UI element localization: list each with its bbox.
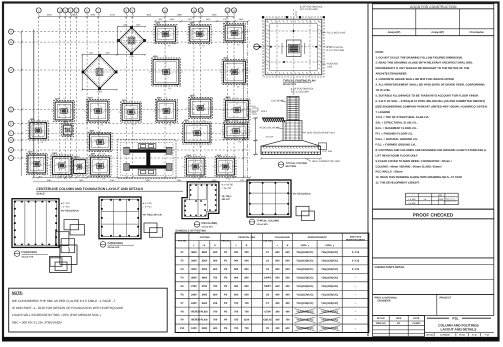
core top landing	[138, 144, 156, 176]
footing F6 at grid (12)	[221, 120, 252, 144]
svg-text:DISCREPANCY IF ANY SHOULD BE B: DISCREPANCY IF ANY SHOULD BE BROUGHT TO …	[376, 67, 470, 70]
svg-text:SIDE FACE: SIDE FACE	[350, 235, 362, 238]
svg-text:11. THE DEVELOPMENT LENGHT: 11. THE DEVELOPMENT LENGHT	[376, 182, 420, 185]
svg-text:600: 600	[286, 327, 291, 330]
svg-text:G: G	[10, 139, 12, 142]
svg-text:600: 600	[286, 251, 291, 254]
svg-text:Y8–TIE@150C/C: Y8–TIE@150C/C	[293, 193, 312, 196]
svg-text:FOOTING: FOOTING	[200, 236, 210, 239]
footing F4 at grid (2)	[186, 22, 214, 48]
svg-text:3600: 3600	[202, 251, 208, 254]
svg-text:500: 500	[286, 277, 291, 280]
svg-text:Analyst(P): Analyst(P)	[388, 31, 401, 34]
left dimension of section	[253, 117, 258, 156]
svg-text:C5/P7: C5/P7	[264, 285, 272, 288]
svg-text:SH NO: SH NO	[459, 334, 466, 337]
kicker details near P1	[64, 220, 85, 235]
svg-text:(SEE ENGINEERING COMPANY PARKV: (SEE ENGINEERING COMPANY PARKVAT LIMITED…	[376, 105, 488, 108]
plan right boundary dash-dot	[247, 21, 249, 178]
svg-text:LAYOUT AND DETAILS: LAYOUT AND DETAILS	[441, 327, 478, 331]
titleblock scale table	[373, 316, 425, 337]
svg-text:PEDESTAL SIZE: PEDESTAL SIZE	[238, 236, 255, 239]
svg-text:700: 700	[213, 310, 218, 313]
svg-text:A: A	[10, 31, 12, 34]
svg-text:Y16@125(C/C): Y16@125(C/C)	[296, 260, 313, 263]
svg-text:Y8–TIE@150C/C: Y8–TIE@150C/C	[61, 209, 80, 212]
svg-text:900: 900	[234, 260, 239, 263]
svg-text:VERL. x: VERL. x	[301, 244, 310, 247]
svg-text:P–45: P–45	[485, 334, 489, 337]
svg-text:400: 400	[286, 310, 291, 313]
svg-text:REINFORCEMENT: REINFORCEMENT	[308, 236, 328, 239]
lift core shear walls	[117, 140, 176, 179]
svg-text:SCALE: SCALE	[36, 193, 45, 196]
svg-text:2800: 2800	[202, 277, 208, 280]
svg-text:6. S.B.C OF SOIL – 375/SQ.M: 6. S.B.C OF SOIL – 375/SQ.M AT 2000L BEL…	[376, 100, 486, 103]
typical column detail	[247, 180, 291, 217]
svg-text:3000: 3000	[202, 268, 208, 271]
svg-text:SECTION: SECTION	[286, 165, 297, 168]
column detail P2	[99, 197, 141, 239]
footing F1 at grid (19)	[70, 155, 90, 179]
svg-text:Y12@150(C/C): Y12@150(C/C)	[296, 293, 313, 296]
svg-text:800: 800	[245, 268, 250, 271]
svg-text:TYPICAL COLUMN: TYPICAL COLUMN	[257, 220, 280, 223]
svg-text:SIZE: SIZE	[396, 317, 402, 320]
svg-text:DWG NO: DWG NO	[376, 322, 386, 325]
svg-text:3740: 3740	[110, 14, 116, 17]
svg-text:Y16@150(C/C): Y16@150(C/C)	[296, 251, 313, 254]
svg-text:900: 900	[245, 251, 250, 254]
core wall top	[128, 149, 168, 152]
svg-text:300: 300	[275, 327, 280, 330]
svg-text:Y8–TIE@ 200 C/C: Y8–TIE@ 200 C/C	[143, 213, 163, 216]
svg-text:500: 500	[275, 268, 280, 271]
svg-text:Y12@125(C/C): Y12@125(C/C)	[296, 302, 313, 305]
svg-text:R.C.C MED LINE: R.C.C MED LINE	[327, 32, 346, 35]
svg-text:Y12@125(C/C): Y12@125(C/C)	[321, 302, 338, 305]
svg-text:F1: F1	[70, 125, 72, 128]
svg-text:2800: 2800	[191, 277, 197, 280]
svg-text:SCHEDULE OF FOOTING: SCHEDULE OF FOOTING	[175, 230, 206, 233]
svg-text:PROOF CHECKED: PROOF CHECKED	[413, 212, 454, 217]
core corner pads	[124, 147, 172, 170]
svg-text:F2: F2	[198, 162, 200, 165]
svg-text:Y16@150(C/C): Y16@150(C/C)	[296, 268, 313, 271]
footing F5 at grid (4)	[149, 55, 183, 90]
svg-text:Y8–TIE@: Y8–TIE@	[222, 195, 233, 198]
svg-text:400: 400	[275, 293, 280, 296]
svg-text:900: 900	[245, 260, 250, 263]
diamond footing small (rotated)	[117, 24, 147, 59]
svg-text:3590: 3590	[212, 14, 218, 17]
svg-text:LINE: LINE	[327, 66, 333, 69]
svg-text:3–Y12: 3–Y12	[352, 260, 360, 263]
svg-text:600: 600	[286, 260, 291, 263]
svg-text:JOB NO: JOB NO	[426, 334, 434, 337]
left dimension line	[21, 32, 23, 176]
svg-text:700: 700	[245, 302, 250, 305]
svg-text:P1(900X900): P1(900X900)	[22, 251, 37, 254]
svg-text:2400: 2400	[202, 293, 208, 296]
svg-text:N.G.L: N.G.L	[261, 110, 268, 113]
svg-text:HORL. y: HORL. y	[325, 244, 334, 247]
svg-text:E: E	[10, 123, 12, 126]
svg-text:F3: F3	[133, 107, 135, 110]
top grid bubbles	[36, 8, 236, 13]
svg-text:FTG NO: FTG NO	[178, 240, 187, 243]
svg-text:400: 400	[286, 285, 291, 288]
svg-text:H: H	[10, 149, 12, 152]
svg-text:Fe 500: Fe 500	[409, 198, 417, 201]
diamond footing large (rotated)	[81, 52, 118, 94]
svg-text:F6: F6	[238, 126, 240, 129]
svg-text:300: 300	[275, 310, 280, 313]
vertical grid lines with bubbles	[39, 13, 234, 177]
svg-text:800: 800	[245, 285, 250, 288]
svg-text:P2(800X800): P2(800X800)	[108, 242, 123, 245]
svg-text:Analyst(P): Analyst(P)	[431, 31, 444, 34]
footing F3 at grid (8)	[118, 99, 144, 126]
svg-text:700: 700	[213, 319, 218, 322]
svg-text:3000: 3000	[191, 268, 197, 271]
svg-text:700: 700	[234, 327, 239, 330]
svg-text:SBC = 300 KN X1.25= 375KN/SQM: SBC = 300 KN X1.25= 375KN/SQM	[12, 320, 62, 324]
svg-text:R–40: R–40	[472, 334, 477, 337]
svg-text:800: 800	[234, 285, 239, 288]
svg-text:CONSULTANTS DETAIL: CONSULTANTS DETAIL	[375, 266, 406, 269]
svg-text:SCALE NTS: SCALE NTS	[283, 83, 296, 86]
svg-text:IS 1893 PART–1– 2016 FOR DES: IS 1893 PART–1– 2016 FOR DESIGN OF FOUND…	[12, 306, 123, 310]
svg-text:2400: 2400	[202, 327, 208, 330]
svg-text:2690: 2690	[90, 14, 96, 17]
svg-text:F10: F10	[180, 327, 185, 330]
svg-text:2400: 2400	[191, 302, 197, 305]
footing F4 at grid (3)	[221, 21, 248, 47]
svg-text:600: 600	[213, 327, 218, 330]
svg-text:F1: F1	[82, 162, 84, 165]
footing F2 at grid (13)	[26, 118, 51, 144]
top dimension line	[39, 16, 234, 18]
footing rebar dots	[262, 152, 318, 153]
svg-text:750: 750	[213, 277, 218, 280]
svg-text:600: 600	[213, 293, 218, 296]
footing F3 at grid (10)	[186, 95, 215, 123]
svg-text:● 4–Y8 TIE: ● 4–Y8 TIE	[222, 184, 234, 187]
proof checked box	[373, 209, 494, 219]
svg-text:700: 700	[245, 310, 250, 313]
svg-text:PED NO: PED NO	[221, 240, 230, 243]
building left edge line	[33, 30, 35, 178]
svg-text:150 C/C: 150 C/C	[222, 198, 231, 201]
svg-text:500: 500	[275, 277, 280, 280]
svg-text:F4: F4	[202, 29, 204, 32]
svg-text:F.G.L = FORMED GROUND: F.G.L = FORMED GROUND LVL.	[376, 143, 417, 146]
svg-text:Y12@150(C/C): Y12@150(C/C)	[296, 285, 313, 288]
section caption	[278, 162, 284, 168]
footing F2 at grid (17)	[24, 151, 50, 179]
svg-text:N.G.L = NATURAL GROUND: N.G.L = NATURAL GROUND LVL.	[376, 138, 419, 141]
svg-text:REINFORCEMENT: REINFORCEMENT	[346, 238, 366, 241]
svg-text:REFER PLAN: REFER PLAN	[191, 310, 207, 313]
column shaft with ties	[287, 97, 299, 121]
svg-text:DATE: DATE	[413, 317, 420, 320]
svg-text:1. DO NOT SCALE THE DRAWING: 1. DO NOT SCALE THE DRAWING FOLLOW FIGUR…	[376, 56, 463, 59]
svg-text:SIDE FACED REINF 50LS: SIDE FACED REINF 50LS	[307, 131, 336, 134]
svg-text:NOTE:: NOTE:	[376, 51, 385, 54]
kicker details near typical column	[296, 206, 314, 220]
svg-text:P3(COLUMN): P3(COLUMN)	[202, 222, 218, 225]
drawing title	[427, 317, 449, 319]
svg-text:GOOD FOR CONSTRUCTION: GOOD FOR CONSTRUCTION	[410, 5, 457, 9]
core wall center	[146, 149, 150, 168]
svg-text:2400: 2400	[202, 302, 208, 305]
svg-text:COLUMN :-40mm / BEAMS :-30mm S: COLUMN :-40mm / BEAMS :-30mm SLABS:-25mm…	[376, 165, 443, 168]
svg-text:○ Y8–TIE: ○ Y8–TIE	[222, 187, 232, 190]
svg-text:8. FOOTINGS AND COLUMNS ARE DE: 8. FOOTINGS AND COLUMNS ARE DESIGNED FOR…	[376, 149, 486, 152]
kicker details near P2	[144, 223, 162, 237]
svg-text:C4/P4: C4/P4	[264, 277, 272, 280]
svg-text:600: 600	[234, 293, 239, 296]
svg-text:R.C.C COLUMN: R.C.C COLUMN	[300, 8, 318, 11]
svg-text:800: 800	[234, 268, 239, 271]
bottom dimension chain	[33, 177, 250, 179]
svg-text:TO IS:1786.: TO IS:1786.	[376, 89, 391, 92]
svg-text:400: 400	[286, 293, 291, 296]
svg-text:1100: 1100	[244, 319, 250, 322]
svg-text:900: 900	[234, 251, 239, 254]
svg-text:F5: F5	[237, 67, 239, 70]
svg-text:700: 700	[234, 310, 239, 313]
svg-text:Y16@125(C/C): Y16@125(C/C)	[321, 260, 338, 263]
titleblock bottom row	[425, 332, 494, 334]
svg-text:PROJECT: PROJECT	[440, 296, 452, 299]
svg-text:SSL = STRUCTURAL SLA: SSL = STRUCTURAL SLAB LVL.	[376, 122, 418, 125]
svg-text:F2: F2	[102, 161, 104, 164]
footing F3 at grid (7)	[84, 97, 112, 127]
svg-text:750: 750	[213, 285, 218, 288]
svg-text:500: 500	[275, 285, 280, 288]
project row	[373, 295, 494, 316]
horizontal grid lines with bubbles	[14, 32, 251, 158]
footing F5 at grid (5)	[220, 57, 250, 89]
svg-text:F7: F7	[199, 128, 201, 131]
svg-text:700: 700	[245, 327, 250, 330]
svg-text:3–Y12: 3–Y12	[352, 268, 360, 271]
svg-text:50 LAP: 50 LAP	[266, 135, 274, 138]
svg-text:600: 600	[213, 251, 218, 254]
svg-text:T.O.S = TOP OF STRUCTUR: T.O.S = TOP OF STRUCTURAL SLAB LVL.	[376, 116, 431, 119]
svg-text:600: 600	[275, 251, 280, 254]
svg-text:700: 700	[286, 319, 291, 322]
svg-text:○ 4–Y12: ○ 4–Y12	[143, 205, 153, 208]
svg-text:CLIENT: CLIENT	[412, 322, 421, 325]
BFL step marks left	[252, 108, 258, 114]
footing F2 at grid (18)	[48, 152, 75, 180]
svg-text:SCALE: SCALE	[377, 317, 385, 320]
svg-text:C8/LY2: C8/LY2	[263, 319, 272, 322]
svg-text:SCALE NTS: SCALE NTS	[257, 223, 269, 226]
footing F2 at grid (21)	[182, 154, 208, 181]
svg-text:6178/02/98: 6178/02/98	[440, 334, 449, 337]
svg-text:RCC WALLS :-25mm: RCC WALLS :-25mm	[376, 171, 403, 174]
svg-text:4000: 4000	[146, 14, 152, 17]
svg-text:F2: F2	[40, 126, 42, 129]
svg-text:NOTE:: NOTE:	[12, 291, 23, 295]
development length table	[406, 193, 459, 205]
svg-text:WELL COMPACTED SOIL: WELL COMPACTED SOIL	[312, 160, 341, 163]
left grid bubbles	[9, 29, 14, 160]
svg-text:SCALE NTS: SCALE NTS	[22, 255, 34, 258]
consultants detail box	[373, 219, 494, 258]
svg-text:B: B	[10, 41, 12, 44]
svg-text:MIN: MIN	[438, 194, 442, 197]
svg-text:2. READ THIS DRAWING ALONG W: 2. READ THIS DRAWING ALONG WITH RELEVANT…	[376, 62, 474, 65]
svg-text:F3: F3	[100, 106, 102, 109]
svg-text:WE CONSIDERED THE SBC AS PER C: WE CONSIDERED THE SBC AS PER CLAUSE 6.3.…	[12, 299, 116, 303]
core wall bottom	[128, 165, 168, 168]
svg-text:F3: F3	[102, 137, 104, 140]
svg-text:600: 600	[213, 260, 218, 263]
svg-text:Fe 500: Fe 500	[409, 202, 417, 205]
pcc pad right	[319, 143, 327, 150]
svg-text:2750: 2750	[202, 285, 208, 288]
good for construction header box	[373, 4, 494, 9]
svg-text:3040: 3040	[47, 14, 53, 17]
svg-text:3200: 3200	[202, 260, 208, 263]
typical footing plan detail	[255, 9, 332, 96]
svg-text:1200: 1200	[191, 327, 197, 330]
footing body	[261, 140, 321, 154]
svg-text:Y12@150(C/C): Y12@150(C/C)	[321, 293, 338, 296]
svg-text:600: 600	[213, 268, 218, 271]
svg-text:675: 675	[213, 302, 218, 305]
column detail P1	[12, 199, 59, 248]
svg-text:SCALE NTS: SCALE NTS	[202, 225, 214, 228]
svg-text:1890: 1890	[71, 14, 77, 17]
svg-text:2750: 2750	[191, 285, 197, 288]
svg-text:F2: F2	[64, 161, 66, 164]
svg-text:D: D	[10, 109, 12, 112]
svg-text:600: 600	[245, 293, 250, 296]
svg-text:Bundled 47 4d: Bundled 47 4d	[444, 200, 456, 203]
footing F6 at grid (11)	[222, 96, 253, 125]
svg-text:F6: F6	[239, 105, 241, 108]
svg-text:F3: F3	[169, 106, 171, 109]
svg-text:COL NO: COL NO	[263, 240, 272, 243]
svg-text:5. SUITABLE ALLOWANCE TO BE: 5. SUITABLE ALLOWANCE TO BE TAKEN INTO A…	[376, 94, 480, 97]
svg-text:3–Y12: 3–Y12	[352, 251, 360, 254]
svg-text:C: C	[10, 69, 12, 72]
svg-text:3860: 3860	[177, 14, 183, 17]
pedestal	[283, 121, 302, 141]
svg-text:F4: F4	[237, 28, 239, 31]
svg-text:R.C.C COLUMN: R.C.C COLUMN	[327, 49, 345, 52]
svg-text:R.C.C COLUMN: R.C.C COLUMN	[291, 91, 309, 94]
svg-text:Y16@150(C/C): Y16@150(C/C)	[321, 251, 338, 254]
svg-text:F2: F2	[228, 162, 230, 165]
svg-text:F2: F2	[39, 159, 41, 162]
bottom thick bar	[2, 337, 500, 342]
svg-text:400: 400	[275, 302, 280, 305]
column detail L-shaped P3	[182, 182, 219, 219]
svg-text:Christopher: Christopher	[469, 31, 484, 34]
svg-text:○ 4–Y12: ○ 4–Y12	[61, 205, 71, 208]
svg-text:3. CONCRETE GRADE SHALL BE M: 3. CONCRETE GRADE SHALL BE M30 FOR UNLES…	[376, 78, 455, 81]
svg-text:475: 475	[234, 319, 239, 322]
svg-text:Y16@150(C/C): Y16@150(C/C)	[321, 277, 338, 280]
footing F3 at grid (9)	[153, 97, 180, 127]
title block panel divider	[367, 4, 369, 336]
svg-text:800: 800	[234, 277, 239, 280]
footing F7 at grid (16)	[180, 119, 214, 148]
note box bottom-left	[9, 288, 168, 332]
svg-text:REFER PLAN: REFER PLAN	[191, 319, 207, 322]
svg-text:ARCHITECT/ENGINEER.: ARCHITECT/ENGINEER.	[376, 73, 408, 76]
svg-text:Y12@150(C/C): Y12@150(C/C)	[321, 285, 338, 288]
svg-text:BY: BY	[397, 322, 401, 325]
svg-text:ENGINEER: ENGINEER	[378, 299, 391, 302]
svg-text:9.CLEAR COVER TO MAIN REINF.:: 9.CLEAR COVER TO MAIN REINF.: FOUNDATION…	[376, 160, 452, 163]
svg-text:Y16@150(C/C): Y16@150(C/C)	[296, 277, 313, 280]
svg-text:7. LEGEND: 7. LEGEND	[376, 111, 391, 114]
svg-text:CENTERLINE COLUMN AND FOUNDATI: CENTERLINE COLUMN AND FOUNDATION LAYOUT …	[36, 187, 144, 191]
section marker left of footing plan	[254, 44, 262, 50]
svg-text:2400: 2400	[191, 293, 197, 296]
svg-text:700: 700	[234, 302, 239, 305]
svg-text:400: 400	[286, 302, 291, 305]
svg-text:C7/W: C7/W	[264, 310, 271, 313]
signature boxes	[373, 9, 494, 36]
svg-text:F4: F4	[168, 29, 170, 32]
svg-text:TYPICAL FOOTING PLAN: TYPICAL FOOTING PLAN	[283, 79, 316, 82]
svg-text:PCC SAB: PCC SAB	[323, 150, 333, 153]
svg-text:3200: 3200	[191, 260, 197, 263]
notes box	[373, 36, 494, 209]
svg-text:500: 500	[286, 268, 291, 271]
svg-text:300: 300	[275, 319, 280, 322]
svg-text:LOADS WILL INCREASE BY SBC +25: LOADS WILL INCREASE BY SBC +25% (FOR MED…	[12, 313, 101, 317]
svg-text:Y16@150(C/C): Y16@150(C/C)	[321, 268, 338, 271]
kicker pair below P1	[50, 245, 77, 272]
footing F2 at grid (22)	[213, 154, 239, 181]
svg-text:10. READ THIS DRAWING ALONG WI: 10. READ THIS DRAWING ALONG WITH DRAWING…	[376, 176, 463, 179]
svg-text:F3: F3	[203, 103, 205, 106]
svg-text:PSL: PSL	[452, 317, 458, 321]
svg-text:600: 600	[275, 260, 280, 263]
svg-text:4. ALL REINFORCEMENT SHALL B: 4. ALL REINFORCEMENT SHALL BE HYSD BARS …	[376, 84, 485, 87]
svg-text:B.F.L = BASEMENT FLOOR: B.F.L = BASEMENT FLOOR LVL.	[376, 127, 418, 130]
footing F2 at grid (20)	[87, 153, 114, 181]
svg-text:3600: 3600	[191, 251, 197, 254]
svg-text:800: 800	[245, 277, 250, 280]
right plan dimension line	[243, 21, 245, 177]
svg-text:LIFT HEAD ROOM FLOOR ONLY: LIFT HEAD ROOM FLOOR ONLY	[376, 154, 418, 157]
svg-text:SCALE NTS: SCALE NTS	[108, 246, 120, 249]
footing F1 at grid (14)	[59, 121, 76, 141]
secondary top dimension line	[155, 20, 248, 22]
footing F4 at grid (1)	[152, 22, 180, 48]
svg-text:FFL = FINISHED FLOOR: FFL = FINISHED FLOOR LVL.	[376, 133, 414, 136]
svg-text:F5: F5	[168, 67, 170, 70]
svg-text:F3: F3	[66, 106, 68, 109]
svg-text:COLUMN SIZE: COLUMN SIZE	[275, 236, 291, 239]
footing F3 at grid (15)	[86, 130, 115, 156]
footing F3 at grid (6)	[51, 98, 77, 126]
